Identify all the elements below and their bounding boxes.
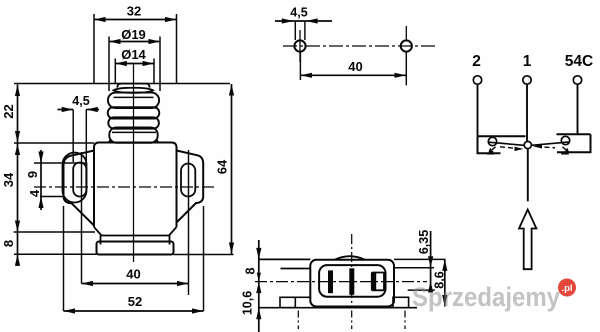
svg-text:8: 8 [1, 240, 16, 247]
svg-text:Ø19: Ø19 [121, 27, 146, 42]
svg-text:2: 2 [472, 53, 481, 70]
svg-text:4: 4 [27, 189, 42, 197]
svg-text:1: 1 [523, 53, 532, 70]
svg-text:34: 34 [1, 172, 16, 187]
svg-text:6,35: 6,35 [417, 230, 431, 254]
svg-text:52: 52 [128, 294, 142, 309]
svg-text:.pl: .pl [561, 283, 572, 294]
svg-text:4,5: 4,5 [72, 94, 89, 108]
svg-text:54C: 54C [565, 53, 593, 70]
svg-text:8: 8 [244, 267, 258, 274]
svg-text:Ø14: Ø14 [121, 47, 146, 62]
svg-text:4,5: 4,5 [290, 6, 307, 20]
svg-text:40: 40 [348, 59, 362, 74]
svg-text:9: 9 [25, 171, 40, 178]
svg-text:32: 32 [127, 4, 141, 19]
svg-text:64: 64 [215, 159, 230, 174]
svg-text:Sprzedajemy: Sprzedajemy [412, 282, 560, 312]
svg-text:10,6: 10,6 [241, 291, 255, 315]
svg-text:22: 22 [1, 104, 16, 118]
svg-text:40: 40 [126, 266, 140, 281]
